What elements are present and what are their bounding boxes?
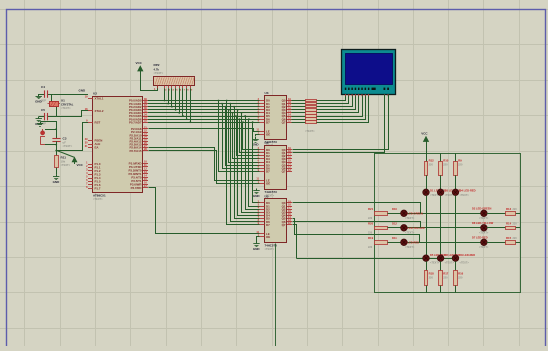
svg-text:P1.7: P1.7	[95, 187, 101, 191]
ground at U5 OE	[253, 237, 261, 252]
svg-text:GND: GND	[253, 194, 261, 198]
svg-text:R20: R20	[368, 222, 374, 226]
wire staircase bus to U5 inputs	[226, 100, 260, 225]
svg-text:GND: GND	[79, 88, 87, 92]
svg-text:<TEXT>: <TEXT>	[479, 246, 489, 249]
svg-text:220: 220	[368, 231, 373, 234]
U2 left pins	[85, 96, 104, 191]
ground at U3 OE	[252, 137, 260, 147]
resistor R14	[487, 222, 520, 230]
wire XTAL2 node	[57, 111, 89, 117]
resistor R11	[55, 155, 71, 174]
svg-text:220: 220	[513, 223, 518, 226]
latch U5 74HC573	[256, 195, 292, 252]
wire U5 Q7 to bottom row	[293, 225, 297, 259]
svg-text:D4 LED-RED: D4 LED-RED	[460, 189, 476, 193]
led D10 LED-GREEN	[392, 207, 423, 220]
svg-text:AT89C51: AT89C51	[93, 194, 106, 198]
wire VCC loop around LED block	[375, 154, 521, 293]
resistor network RN1 (8 series resistors)	[292, 100, 321, 134]
svg-text:220: 220	[513, 208, 518, 211]
wire LED matrix rows	[388, 214, 481, 243]
resistor R18	[425, 262, 435, 293]
led D1 LED-RED	[423, 189, 446, 197]
svg-text:D2 LED-GREEN: D2 LED-GREEN	[472, 206, 491, 210]
svg-text:R16: R16	[458, 272, 464, 276]
svg-text:LED-RED: LED-RED	[408, 240, 420, 244]
svg-text:<TEXT>: <TEXT>	[479, 217, 489, 220]
wire U5 Q6 to row2	[293, 222, 421, 228]
resistor R15	[487, 236, 520, 244]
svg-text:<TEXT>: <TEXT>	[154, 71, 164, 75]
svg-text:Q7: Q7	[282, 223, 286, 227]
wire RST node to U2	[57, 123, 89, 151]
wire VCC to RP2 pin1	[141, 77, 158, 91]
svg-text:C4: C4	[41, 85, 45, 89]
svg-text:VCC: VCC	[77, 163, 84, 167]
svg-text:RST: RST	[95, 121, 101, 125]
resistor R17	[439, 262, 449, 293]
svg-text:<TEXT>: <TEXT>	[430, 261, 440, 264]
svg-text:D12: D12	[392, 222, 397, 226]
svg-text:R9: R9	[458, 158, 462, 162]
wire XTAL1 node	[53, 94, 88, 96]
svg-text:VCC: VCC	[136, 61, 143, 65]
svg-text:GND: GND	[35, 100, 43, 104]
wire from U5 bottom edge down off-sheet	[275, 244, 277, 347]
svg-text:GND: GND	[53, 180, 61, 184]
led D12 LED-YELLOW	[392, 222, 425, 235]
wire LCD RS to U4 Q1	[293, 95, 389, 150]
svg-text:LED-YELLOW: LED-YELLOW	[408, 226, 426, 230]
wire fan resistors to LCD data pins	[317, 95, 369, 123]
svg-text:P0.7/AD7: P0.7/AD7	[129, 120, 142, 124]
svg-text:<TEXT>: <TEXT>	[265, 247, 275, 251]
led D8 LED-YELLOW	[472, 221, 494, 235]
wire LCD E to U4 Q0	[293, 95, 385, 153]
svg-text:CRYSTAL: CRYSTAL	[61, 102, 74, 106]
wire LED matrix columns	[427, 196, 456, 255]
wire U2 P3.7 to U5 LE	[149, 188, 260, 234]
wire bus P0 to U3	[148, 101, 260, 123]
svg-text:74HC573: 74HC573	[265, 190, 278, 194]
svg-text:D9 LED-RED: D9 LED-RED	[460, 253, 476, 257]
svg-text:220: 220	[368, 246, 373, 249]
svg-text:4.7k: 4.7k	[154, 67, 160, 71]
LCD display LCD1 128x64	[342, 50, 396, 97]
svg-text:220: 220	[443, 162, 448, 166]
led D7 LED-RED	[472, 235, 489, 249]
svg-text:<TEXT>: <TEXT>	[305, 129, 315, 133]
svg-text:220: 220	[368, 217, 373, 220]
resistor R21	[368, 207, 401, 220]
svg-text:U5: U5	[265, 195, 269, 199]
resistor R20	[368, 222, 401, 235]
wire bottom LED row	[297, 258, 456, 260]
svg-text:OE: OE	[266, 132, 270, 136]
power VCC at reset	[57, 151, 84, 167]
svg-text:uF: uF	[63, 140, 67, 144]
led D9 LED-RED	[452, 253, 475, 264]
svg-text:<TEXT>: <TEXT>	[93, 197, 103, 201]
led D3 LED-RED	[437, 189, 460, 197]
svg-text:U3: U3	[265, 91, 269, 95]
wire U3 OE to ground	[256, 135, 260, 137]
latch U3 74HC573	[256, 91, 292, 148]
svg-text:X1: X1	[61, 99, 65, 103]
svg-text:R12: R12	[429, 158, 435, 162]
wire U2 P2.7 to U4 OE	[149, 151, 260, 184]
svg-text:P2.7/A15: P2.7/A15	[129, 149, 141, 153]
svg-text:U4: U4	[265, 141, 269, 145]
svg-text:R18: R18	[429, 272, 435, 276]
svg-text:D8 LED-YELLOW: D8 LED-YELLOW	[472, 221, 494, 225]
svg-text:R19: R19	[368, 236, 374, 240]
capacitor C3	[52, 137, 72, 156]
svg-text:GND: GND	[252, 143, 260, 147]
ground below R11	[53, 174, 61, 184]
crystal X1	[48, 94, 74, 117]
svg-text:220: 220	[443, 276, 448, 280]
power VCC feeding LED block	[421, 131, 428, 153]
svg-text:D11: D11	[392, 236, 397, 240]
ground for C4	[35, 94, 43, 104]
svg-text:D7: D7	[266, 223, 270, 227]
power VCC for RP2	[136, 61, 143, 77]
svg-text:<TEXT>: <TEXT>	[63, 144, 73, 148]
svg-text:220: 220	[513, 237, 518, 240]
led D6 LED-RED	[437, 253, 460, 264]
svg-text:U2: U2	[93, 92, 97, 96]
resistor R16	[454, 262, 464, 293]
svg-text:Q7: Q7	[282, 120, 286, 124]
svg-text:<TEXT>: <TEXT>	[405, 231, 415, 234]
led D5 LED-RED	[423, 253, 446, 264]
svg-text:D7 LED-RED: D7 LED-RED	[472, 235, 488, 239]
svg-text:R15: R15	[506, 236, 512, 240]
wire U2 P2.6 to U4 LE	[149, 148, 260, 181]
svg-text:GND: GND	[253, 247, 261, 251]
svg-text:<TEXT>: <TEXT>	[61, 163, 71, 167]
RP2 output pins to P0 bus	[158, 86, 194, 124]
svg-text:220: 220	[458, 162, 463, 166]
svg-text:OE: OE	[266, 235, 270, 239]
svg-text:Q7: Q7	[282, 170, 286, 174]
wire U2 P2.0 to U3 LE	[149, 129, 260, 132]
resistor R9	[454, 153, 463, 189]
svg-text:C5: C5	[41, 108, 45, 112]
svg-text:R14: R14	[506, 222, 512, 226]
resistor R19	[368, 236, 401, 249]
svg-text:<TEXT>: <TEXT>	[445, 261, 455, 264]
wire U5 Q0 to row1	[293, 203, 421, 214]
led D4 LED-RED	[452, 189, 475, 197]
svg-text:<TEXT>: <TEXT>	[405, 217, 415, 220]
svg-text:R13: R13	[506, 207, 512, 211]
svg-text:R10: R10	[443, 158, 449, 162]
resistor R10	[439, 153, 449, 189]
mcu U2 AT89C51	[93, 92, 143, 202]
svg-text:D10: D10	[392, 207, 397, 211]
svg-text:R21: R21	[368, 207, 374, 211]
wire U5 Q5 to row3	[293, 219, 420, 243]
svg-text:<TEXT>: <TEXT>	[479, 232, 489, 235]
led D11 LED-RED	[392, 236, 419, 249]
svg-text:R17: R17	[443, 272, 449, 276]
svg-text:D7: D7	[266, 120, 270, 124]
resistor R12	[425, 153, 435, 189]
capacitor C4	[39, 85, 54, 103]
svg-text:OE: OE	[266, 182, 270, 186]
ground at U4 OE	[253, 189, 261, 199]
svg-text:D7: D7	[266, 170, 270, 174]
svg-text:220: 220	[429, 162, 434, 166]
svg-text:P3.7/RD: P3.7/RD	[131, 186, 142, 190]
svg-text:<TEXT>: <TEXT>	[61, 106, 71, 110]
svg-text:XTAL2: XTAL2	[95, 109, 104, 113]
svg-text:220: 220	[458, 276, 463, 280]
push button reset	[40, 129, 56, 145]
U2 right pins	[128, 98, 148, 190]
svg-text:10k: 10k	[61, 159, 66, 163]
svg-text:<TEXT>: <TEXT>	[460, 194, 470, 197]
resistor pack RP2	[154, 63, 195, 91]
wire staircase bus to U4 inputs	[218, 100, 260, 172]
svg-text:220: 220	[429, 276, 434, 280]
led D2 LED-GREEN	[472, 206, 491, 220]
capacitor C5	[39, 108, 57, 125]
wire reset top rail	[41, 122, 57, 137]
svg-text:VCC: VCC	[421, 131, 428, 135]
svg-text:XTAL1: XTAL1	[95, 97, 104, 101]
svg-text:<TEXT>: <TEXT>	[405, 246, 415, 249]
svg-text:<TEXT>: <TEXT>	[460, 261, 470, 264]
resistor R13	[487, 207, 520, 215]
ground for reset rail	[37, 121, 43, 126]
latch U4 74HC573	[256, 141, 292, 198]
ground for C5	[35, 117, 43, 127]
